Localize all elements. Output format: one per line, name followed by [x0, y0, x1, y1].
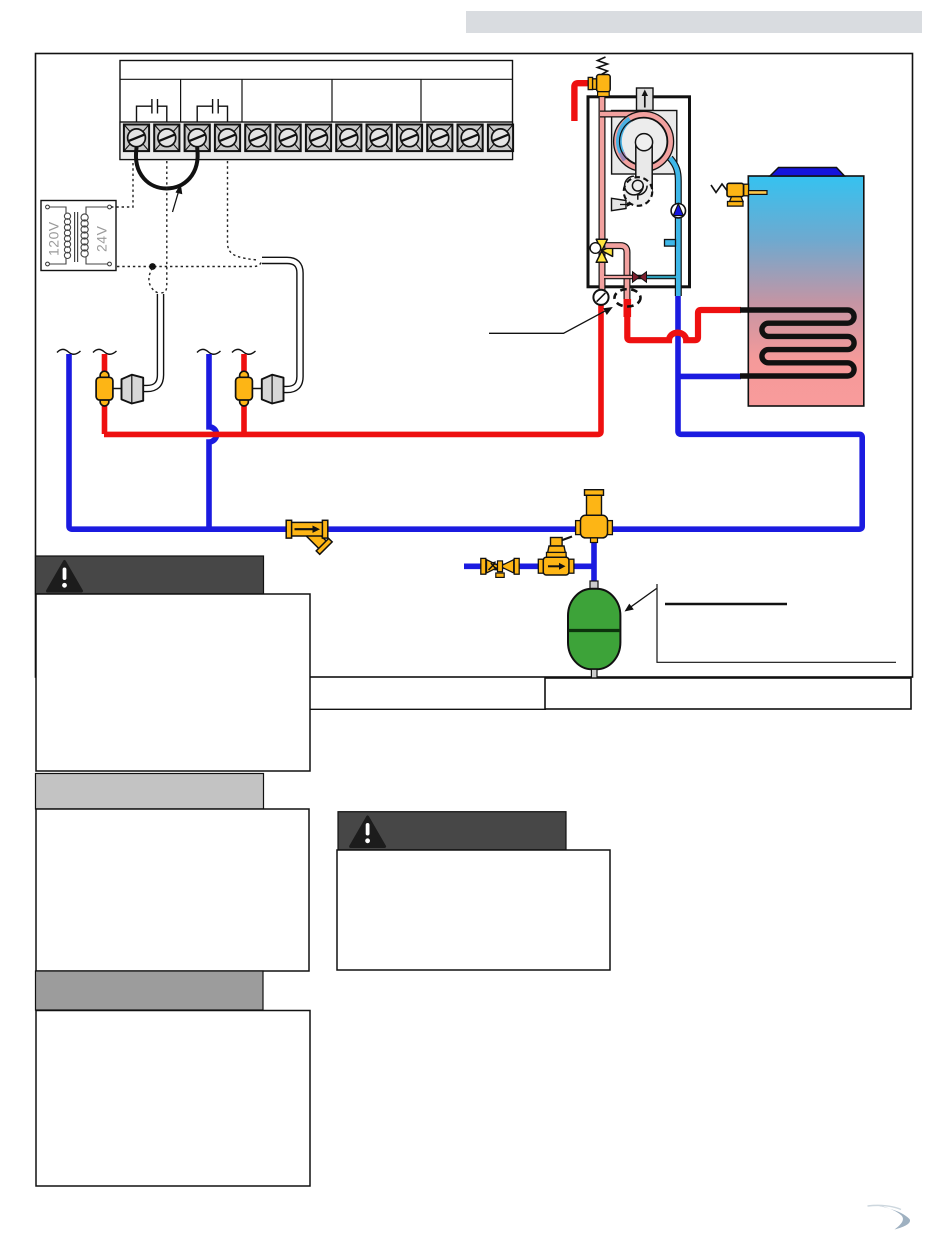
svg-text:24V: 24V	[94, 225, 110, 252]
pipe break mark zone2 return	[197, 349, 221, 354]
wire terminal 4 down to zone valve 2 conduit (dashed)	[228, 161, 259, 260]
air separator	[576, 490, 613, 543]
leader line to gauge/DHW area	[489, 310, 608, 334]
screw terminal 12	[458, 125, 483, 152]
arrow to expansion tank	[630, 589, 657, 608]
terminal strip lower gray band	[120, 122, 513, 160]
caption box (figure caption, empty)	[310, 708, 546, 710]
pipe to heat exchanger	[600, 111, 641, 118]
heat exchanger coil ring	[620, 118, 667, 165]
screw terminal 2	[154, 125, 179, 152]
3-way diverting valve	[596, 239, 612, 262]
transformer secondary winding	[81, 207, 108, 264]
second gray bar (darker)	[36, 971, 264, 1010]
T&P relief valve on tank	[711, 183, 767, 206]
boiler internal return pipe (cyan)	[670, 158, 678, 296]
red relief valve discharge pipe	[574, 83, 592, 121]
blower/venturi assembly	[624, 177, 653, 206]
zone valve 2 (with actuator)	[240, 371, 249, 380]
bottom body box	[36, 1011, 310, 1187]
y-strainer on return	[286, 520, 332, 554]
heat exchanger rotor bar	[636, 141, 652, 191]
screw terminal 1	[124, 125, 149, 152]
expansion tank	[568, 589, 620, 670]
screw terminal 5	[245, 125, 270, 152]
screw terminal 13	[488, 125, 513, 152]
terminal strip top band divider	[120, 78, 513, 80]
boiler pressure relief valve	[588, 57, 610, 97]
red supply main: boiler down, horizontal to zones	[104, 303, 601, 434]
tank top cap	[770, 168, 845, 177]
temperature/pressure gauge	[593, 290, 608, 305]
arrow pointing to jumper	[173, 190, 180, 212]
transformer primary winding	[50, 207, 71, 264]
junction dot	[149, 263, 156, 270]
screw terminal 10	[397, 125, 422, 152]
screw terminal 9	[367, 125, 392, 152]
warning box 2 body	[337, 850, 610, 970]
decorative swoosh bottom right	[873, 1205, 910, 1230]
wire transformer 120V to terminal 1 (dashed)	[111, 161, 133, 207]
transformer corner terminals	[46, 205, 50, 209]
blue zone2 riser with crossover hop	[209, 354, 217, 529]
screw terminal 3	[185, 125, 210, 152]
diagram frame border	[36, 54, 913, 678]
transformer T1 box	[41, 201, 116, 271]
screw terminal 8	[336, 125, 361, 152]
header bar (page title strip)	[466, 11, 922, 33]
boiler circulator pump	[671, 204, 685, 218]
expansion tank label bracket	[657, 584, 896, 662]
pipe break mark zone2 supply	[232, 349, 256, 354]
red zone1 riser	[102, 354, 108, 434]
heat exchanger housing	[612, 111, 677, 175]
warning triangle icon 2	[351, 817, 385, 847]
warning triangle icon 1	[48, 562, 82, 592]
terminal strip outer box	[120, 61, 513, 160]
screw terminal 4	[215, 125, 240, 152]
tank heat-exchanger coil	[740, 310, 854, 376]
pressure reducing valve (feed)	[538, 537, 574, 576]
backflow preventer	[481, 558, 519, 577]
bypass line with valve	[604, 275, 676, 280]
pipe break mark zone1 supply	[93, 349, 117, 354]
sensor stub on return pipe	[665, 240, 676, 247]
blue return main: zone1 riser, bottom run, right riser to boiler return	[69, 296, 862, 529]
boiler cabinet	[588, 97, 690, 287]
notice bar (light gray)	[36, 774, 264, 810]
jumper wire terminal1-terminal3	[136, 148, 198, 189]
air intake funnel	[612, 198, 627, 210]
boiler internal supply pipe	[599, 97, 606, 303]
heat exchanger hub	[635, 134, 652, 151]
wire transformer 24V common (dashed)	[117, 261, 262, 267]
3-way valve outlet pipe	[606, 246, 627, 299]
end-switch contact symbol (terminals 3-4)	[197, 99, 227, 122]
wire junction to zone valve 1 conduit (dashed)	[149, 268, 159, 293]
blue branch to indirect tank coil	[678, 374, 741, 380]
expansion tank label underline	[665, 603, 787, 606]
blue drop to expansion tank	[591, 536, 597, 585]
red zone2 riser	[241, 354, 247, 434]
DHW connection dashed circle	[615, 289, 641, 306]
pipe break mark zone1 return	[57, 349, 81, 354]
zone valve 2 actuator conduit	[262, 260, 300, 389]
screw terminal 6	[276, 125, 301, 152]
expansion tank connection stub	[590, 581, 598, 590]
flue vent	[637, 88, 654, 111]
warning box 1 body	[36, 594, 310, 771]
screw terminal 11	[427, 125, 452, 152]
end-switch contact symbol (terminals 1-2)	[137, 99, 167, 122]
warning box 1 header	[36, 556, 264, 594]
screw terminal 7	[306, 125, 331, 152]
red DHW-loop pipe boiler to tank coil (with hop over blue)	[627, 300, 741, 340]
zone valve 1 actuator conduit	[144, 294, 161, 389]
terminal strip section dividers	[180, 79, 182, 122]
svg-text:120V: 120V	[46, 221, 62, 256]
blue cold water feed line	[464, 563, 594, 569]
zone valve 1 (with actuator)	[100, 371, 109, 380]
transformer core	[74, 212, 76, 262]
warning box 2 header	[338, 812, 566, 850]
notice body box	[36, 809, 309, 971]
wire terminal 2 down to zone valve 1 conduit (dashed)	[161, 161, 167, 293]
